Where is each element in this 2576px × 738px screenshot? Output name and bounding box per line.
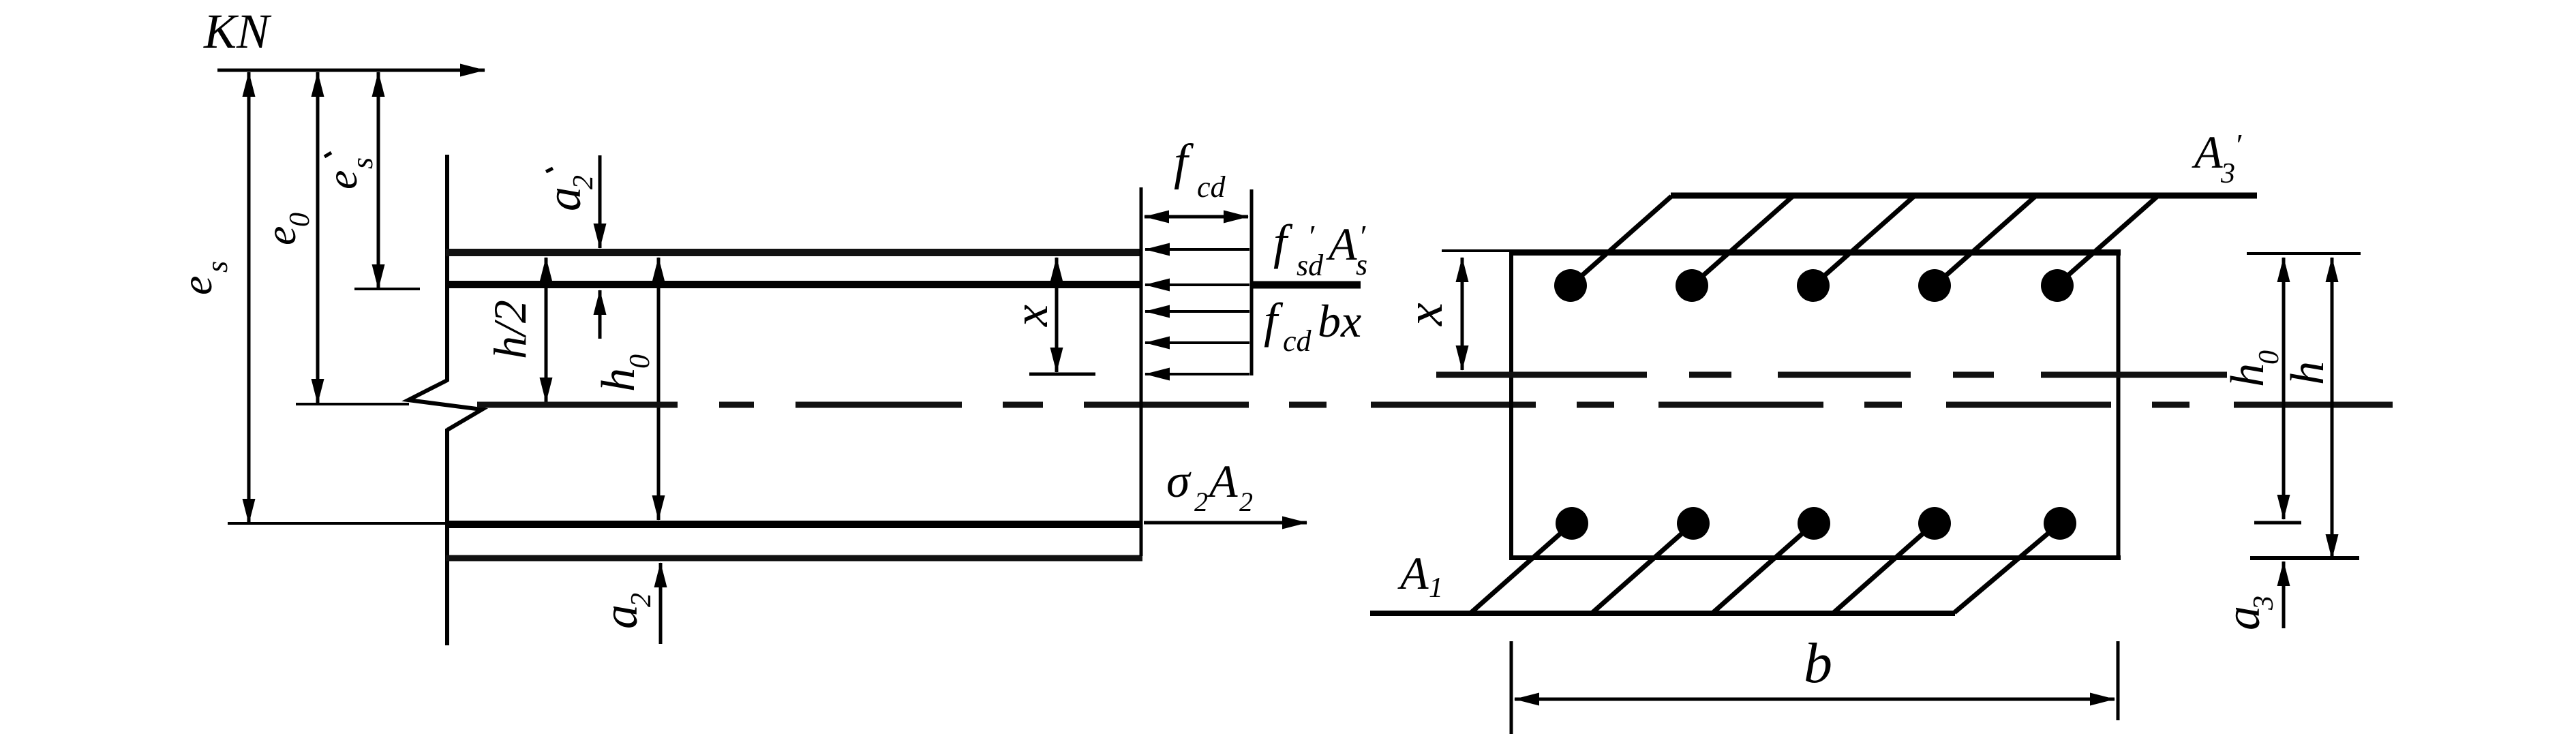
tension steel line — [446, 521, 1142, 528]
prime of a_2' — [546, 168, 553, 172]
x extension tick top right section — [1442, 249, 1530, 252]
svg-text:h: h — [2282, 361, 2334, 385]
centroid axis dash-dot centerline — [477, 402, 2393, 408]
bottom rebar dot 3 of A_1 — [1798, 507, 1830, 540]
dimension h_0 left — [657, 258, 661, 520]
leader line from top dot 3 — [1813, 196, 1914, 286]
dimension a_2 — [659, 563, 663, 644]
dimension f_cd width arrow — [1145, 215, 1248, 219]
extension line at tension steel level — [228, 522, 445, 525]
b dimension left tick — [1510, 641, 1513, 734]
svg-text:3: 3 — [2220, 158, 2235, 189]
svg-text:cd: cd — [1283, 324, 1312, 358]
svg-text:2: 2 — [1239, 487, 1253, 517]
leader line from top dot 1 — [1571, 196, 1671, 286]
beam left edge with break — [445, 155, 449, 382]
A_1 rebar line — [1370, 611, 1955, 616]
svg-text:h/2: h/2 — [484, 300, 536, 359]
svg-text:A: A — [1207, 455, 1238, 507]
stress arrow 4 — [1145, 341, 1249, 344]
svg-text:σ: σ — [1166, 455, 1192, 508]
dimension h_0 right — [2282, 258, 2286, 519]
top rebar dot 1 of A_3' — [1554, 269, 1587, 302]
stress arrow 5 — [1145, 373, 1249, 375]
stress block right line — [1250, 189, 1254, 375]
svg-text:x: x — [1003, 305, 1058, 327]
svg-text:sd: sd — [1297, 249, 1324, 282]
axial force arrow KN — [217, 69, 485, 72]
dimension h/2 — [545, 258, 548, 402]
stress arrow 1 — [1145, 248, 1249, 251]
svg-text:1: 1 — [1429, 572, 1443, 604]
dimension x right — [1461, 258, 1464, 370]
b dimension right tick — [2117, 641, 2120, 720]
cross-section rectangle — [1509, 249, 2121, 256]
tension force arrow sigma_2 A_2 — [1144, 521, 1307, 525]
A_3' rebar line — [1671, 193, 2257, 199]
b dimension arrow — [1515, 698, 2115, 701]
compression steel force line f'_sd A'_s — [1252, 281, 1361, 289]
dimension e_0 — [316, 72, 320, 403]
leader line from top dot 2 — [1692, 196, 1793, 286]
bottom rebar dot 1 of A_1 — [1556, 507, 1588, 540]
beam top fiber line — [446, 249, 1142, 256]
svg-text:bx: bx — [1318, 295, 1361, 347]
tick for e_s' — [354, 288, 420, 290]
leader line from bottom dot 3 — [1713, 523, 1814, 613]
leader line from bottom dot 5 — [1954, 523, 2060, 613]
stress arrow 3 — [1145, 310, 1249, 313]
svg-text:2: 2 — [1194, 487, 1208, 517]
dimension h right — [2331, 258, 2334, 559]
compression steel line — [446, 281, 1142, 288]
stress block left line / beam right edge — [1140, 187, 1143, 556]
dimension a_2' lower part — [598, 290, 602, 339]
svg-text:′: ′ — [2234, 127, 2242, 162]
svg-text:x: x — [1396, 303, 1453, 326]
leader line from bottom dot 4 — [1834, 523, 1935, 613]
top rebar dot 3 of A_3' — [1797, 269, 1830, 302]
centroid axis solid segment — [296, 403, 409, 405]
bottom rebar dot 4 of A_1 — [1918, 507, 1951, 540]
tick h_0 bottom — [2254, 521, 2301, 525]
tick h bottom — [2250, 556, 2359, 560]
extension tick top right dims — [2247, 252, 2361, 255]
svg-text:cd: cd — [1197, 170, 1226, 204]
leader line from bottom dot 1 — [1471, 523, 1572, 613]
top rebar dot 5 of A_3' — [2041, 269, 2074, 302]
bottom rebar dot 5 of A_1 — [2044, 507, 2076, 540]
dimension x left — [1055, 258, 1059, 372]
leader line from bottom dot 2 — [1592, 523, 1693, 613]
tick for x left — [1029, 373, 1095, 376]
top rebar dot 4 of A_3' — [1918, 269, 1951, 302]
svg-text:A: A — [1397, 547, 1429, 599]
top rebar dot 2 of A_3' — [1676, 269, 1708, 302]
dimension e_s' — [377, 72, 380, 289]
dimension a_3 — [2282, 562, 2286, 628]
prime of e_s' — [324, 153, 331, 157]
leader line from top dot 4 — [1935, 196, 2035, 286]
svg-text:KN: KN — [203, 4, 272, 59]
svg-text:s: s — [1356, 248, 1367, 281]
svg-text:A: A — [1326, 218, 1357, 270]
svg-text:b: b — [1804, 632, 1832, 695]
bottom rebar dot 2 of A_1 — [1677, 507, 1710, 540]
svg-text:A: A — [2192, 126, 2223, 178]
dimension a_2' upper part — [598, 155, 602, 248]
stress arrow 2 — [1145, 283, 1249, 286]
dashed x-depth level line with bottom tick — [1436, 372, 2227, 378]
leader line from top dot 5 — [2057, 196, 2157, 285]
dimension e_s — [247, 72, 251, 523]
beam bottom fiber line — [446, 555, 1142, 562]
